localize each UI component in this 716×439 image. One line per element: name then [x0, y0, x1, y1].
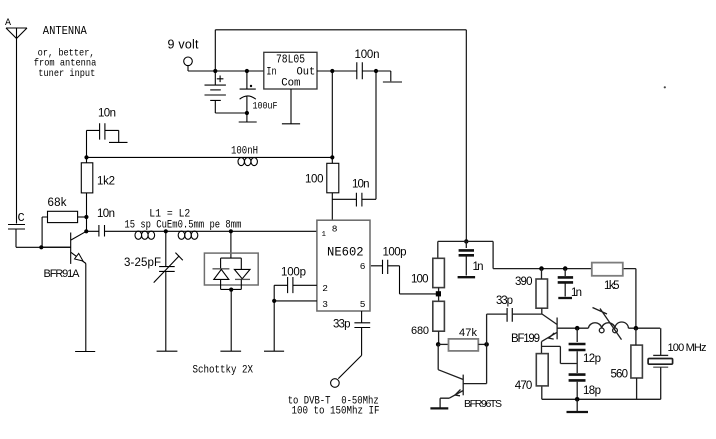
- svg-text:390: 390: [515, 276, 533, 288]
- node 47k left junction: [436, 342, 441, 347]
- svg-text:BFR91A: BFR91A: [44, 268, 81, 280]
- inductor 100nH: [231, 146, 258, 166]
- svg-text:3-25pF: 3-25pF: [124, 257, 161, 269]
- inductor L1: [135, 231, 155, 239]
- wire tank top: [628, 327, 660, 329]
- svg-text:18p: 18p: [583, 385, 601, 397]
- node bottom bus junction: [575, 397, 580, 402]
- wire bottom bus: [542, 386, 661, 399]
- node 390 junction: [539, 266, 544, 271]
- resistor 1k5: [592, 263, 623, 292]
- node L2 junction: [229, 229, 233, 233]
- wire 9v to regulator: [188, 70, 264, 72]
- resistor 680: [411, 301, 444, 337]
- ground BFR96TS: [430, 407, 448, 409]
- svg-text:33p: 33p: [496, 295, 513, 307]
- wire resonator rail to pin1: [105, 230, 317, 232]
- capacitor 10n pin8: [332, 179, 376, 207]
- svg-text:33p: 33p: [333, 319, 351, 331]
- node BF199 collector junction: [575, 326, 580, 331]
- wire 100n right down: [375, 71, 377, 199]
- wire emitter down: [85, 264, 87, 352]
- wire pin3 ground: [273, 301, 275, 351]
- wire pin6 to divider: [400, 266, 439, 294]
- svg-text:100: 100: [305, 173, 324, 185]
- svg-text:47k: 47k: [459, 327, 478, 339]
- node battery junction: [213, 69, 217, 73]
- capacitor 10n coupling: [86, 208, 115, 237]
- svg-text:BF199: BF199: [511, 333, 540, 345]
- svg-text:9 volt: 9 volt: [168, 38, 200, 52]
- capacitor 100n: [355, 49, 380, 79]
- svg-text:NE602: NE602: [327, 245, 364, 260]
- wire vplus down to rail: [331, 71, 333, 157]
- transistor Q1 BFR91A: [41, 231, 86, 280]
- connector output: [331, 379, 340, 388]
- svg-text:68k: 68k: [48, 197, 67, 209]
- svg-text:680: 680: [411, 325, 429, 337]
- node vplus corner: [464, 239, 468, 243]
- inductor L2: [178, 231, 198, 239]
- resistor 470: [515, 354, 548, 392]
- resistor 100 first: [305, 163, 339, 193]
- svg-text:C: C: [18, 211, 25, 225]
- ground bottom bus: [576, 399, 578, 412]
- svg-text:100nH: 100nH: [231, 146, 258, 158]
- wire 100 to 680: [438, 288, 440, 302]
- capacitor 33p pin5: [333, 311, 370, 355]
- capacitor 33p osc: [487, 295, 542, 345]
- wire Out rail: [317, 70, 376, 72]
- resistor 390: [515, 276, 548, 308]
- svg-text:78L05: 78L05: [276, 53, 305, 67]
- node L1 junction: [164, 229, 168, 233]
- ground 3-25pF: [157, 350, 178, 352]
- battery 9V: [205, 71, 247, 113]
- wire top bus: [215, 30, 466, 242]
- capacitor 1n second: [558, 269, 582, 299]
- capacitor C: [8, 211, 25, 247]
- node divider junction: [436, 291, 441, 296]
- svg-text:1: 1: [322, 231, 327, 239]
- ground 78L05: [282, 123, 300, 125]
- svg-text:15 sp CuEm0.5mm pe 8mm: 15 sp CuEm0.5mm pe 8mm: [124, 220, 241, 232]
- IC U2 NE602: [317, 220, 370, 311]
- svg-text:470: 470: [515, 380, 533, 392]
- wire 68k left lead: [42, 217, 47, 247]
- svg-text:Schottky 2X: Schottky 2X: [193, 365, 254, 377]
- svg-text:5: 5: [360, 299, 366, 310]
- svg-text:100: 100: [411, 273, 429, 285]
- wire vplus branch: [438, 241, 636, 328]
- resistor 68k: [48, 197, 78, 223]
- svg-text:12p: 12p: [583, 353, 601, 365]
- svg-text:1n: 1n: [571, 287, 582, 299]
- schottky diode pair: [193, 231, 259, 376]
- wire 100 second top lead: [437, 241, 439, 258]
- wire 390 leads: [541, 269, 543, 314]
- svg-text:3: 3: [322, 299, 328, 310]
- svg-text:100p: 100p: [383, 247, 407, 259]
- node 1k2 top junction: [84, 155, 88, 159]
- svg-text:100p: 100p: [281, 267, 306, 279]
- resistor 100 second: [411, 258, 444, 287]
- capacitor 100p pin6: [371, 247, 407, 275]
- wire pin3 link: [274, 285, 317, 301]
- ground BFR91A emitter: [75, 351, 95, 353]
- node out junction a: [330, 69, 334, 73]
- node 68k junction: [84, 215, 88, 219]
- ground schottky: [220, 350, 241, 352]
- resistor 560: [611, 345, 643, 380]
- wire 68k right lead: [78, 216, 87, 218]
- wire 1k2 leads: [86, 157, 88, 231]
- capacitor 100p pin2: [274, 267, 317, 294]
- label output: [288, 395, 380, 417]
- note text: [34, 48, 97, 81]
- ground for 10n top: [109, 141, 128, 143]
- capacitor 10n bias top: [87, 108, 119, 158]
- svg-text:tuner input: tuner input: [38, 68, 95, 80]
- node 100uF bottom junction: [245, 111, 249, 115]
- crystal X1 100 MHz: [648, 328, 706, 399]
- ground 100uF: [239, 121, 257, 123]
- svg-text:BFR96TS: BFR96TS: [464, 398, 502, 410]
- svg-text:Com: Com: [281, 78, 301, 90]
- svg-text:A: A: [5, 18, 11, 29]
- capacitor 12p: [569, 328, 601, 373]
- inductor L3 variable: [588, 308, 628, 340]
- capacitor 1n first: [459, 241, 484, 275]
- wire 560 leads: [635, 328, 638, 399]
- ground 1n second: [558, 297, 572, 299]
- node 100uF top junction: [245, 69, 249, 73]
- wire 680 bottom: [438, 331, 440, 344]
- svg-text:8: 8: [332, 223, 338, 234]
- svg-text:In: In: [266, 67, 276, 79]
- wire 47k right lead: [478, 343, 486, 345]
- ground 100n: [383, 81, 402, 83]
- node base junction: [39, 245, 43, 249]
- wire 47k left lead: [438, 343, 448, 345]
- node rail junction: [330, 155, 334, 159]
- svg-text:560: 560: [611, 368, 629, 380]
- node out junction b: [374, 69, 378, 73]
- node collector junction: [84, 229, 88, 233]
- svg-text:10n: 10n: [97, 208, 115, 220]
- node 47k right junction: [484, 342, 489, 347]
- transistor Q2 BF199: [511, 314, 588, 364]
- svg-text:1k2: 1k2: [97, 176, 115, 188]
- capacitor 18p: [569, 375, 601, 400]
- svg-text:100n: 100n: [355, 49, 380, 61]
- svg-text:10n: 10n: [352, 179, 370, 191]
- capacitor 100uF: [240, 71, 278, 122]
- svg-text:100 MHz: 100 MHz: [668, 342, 707, 354]
- wire Com to ground: [290, 89, 292, 124]
- svg-text:1n: 1n: [473, 261, 484, 273]
- ground pin3: [264, 350, 284, 352]
- wire output diagonal: [338, 355, 361, 378]
- wire base line: [16, 246, 71, 248]
- svg-text:100 to 150Mhz IF: 100 to 150Mhz IF: [292, 406, 380, 418]
- variable capacitor 3-25pF: [124, 231, 183, 351]
- regulator U1 78L05: [264, 52, 317, 89]
- svg-text:2: 2: [322, 283, 328, 294]
- node 1n second junction: [563, 266, 568, 271]
- stray dot: [664, 86, 666, 88]
- node 560 junction: [634, 326, 639, 331]
- wire 100n elbow to ground: [376, 71, 391, 81]
- svg-text:6: 6: [360, 261, 366, 272]
- ground 1n first: [458, 276, 476, 278]
- svg-text:100uF: 100uF: [253, 102, 278, 113]
- svg-text:1k5: 1k5: [604, 280, 620, 292]
- node pin3 junction: [272, 299, 276, 303]
- supply 9 volt connector: [168, 38, 200, 72]
- transistor Q3 BFR96TS: [438, 344, 502, 409]
- antenna A: [5, 18, 27, 224]
- wire main HF rail: [87, 156, 333, 158]
- svg-text:ANTENNA: ANTENNA: [43, 24, 88, 38]
- resistor 1k2: [81, 163, 115, 193]
- svg-text:10n: 10n: [98, 108, 116, 120]
- resistor 47k: [449, 327, 479, 351]
- wire 100 leads: [331, 157, 333, 220]
